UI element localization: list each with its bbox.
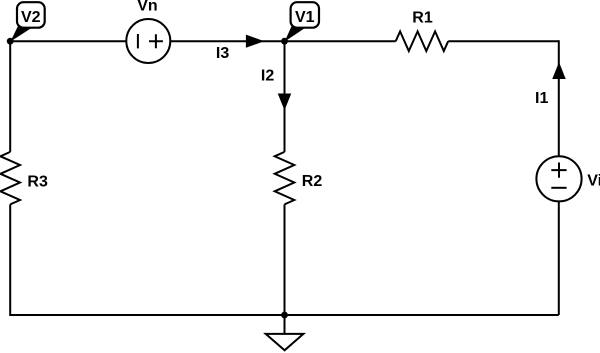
junction dot at bottom node: [281, 312, 288, 319]
wire top: node V1 to R1 left lead: [285, 40, 396, 42]
current arrow I2: [279, 94, 291, 109]
svg-text:Vn: Vn: [137, 0, 157, 15]
wire right: Vi bottom terminal to bottom-right corner: [558, 202, 560, 316]
wire stub: bottom node to ground: [284, 315, 286, 334]
svg-text:R3: R3: [27, 174, 48, 191]
node V1 callout: [285, 2, 319, 41]
wire middle: node V1 down to R2 top lead: [284, 41, 286, 152]
svg-text:I1: I1: [535, 90, 548, 107]
current arrow I1: [553, 64, 565, 79]
wire top: node V2 to Vn left terminal: [10, 40, 126, 42]
svg-text:V2: V2: [21, 9, 41, 26]
svg-text:R2: R2: [302, 173, 323, 190]
voltage source Vi: [536, 156, 581, 201]
current arrow I3: [246, 35, 262, 47]
node V2 callout: [10, 2, 44, 41]
svg-text:V1: V1: [295, 9, 315, 26]
resistor R2: [275, 152, 295, 205]
ground: [266, 334, 304, 350]
svg-text:Vi: Vi: [587, 172, 600, 189]
voltage source Vn: [126, 19, 170, 63]
wire bottom: [10, 314, 559, 316]
wire left: R3 bottom lead to bottom-left corner: [9, 204, 11, 316]
junction dot at node V2: [7, 38, 14, 45]
wire top: Vn right terminal to node V1: [170, 40, 284, 42]
junction dot at node V1: [281, 38, 288, 45]
svg-text:R1: R1: [412, 9, 433, 26]
wire middle: R2 bottom lead to bottom wire: [284, 204, 286, 315]
wire left: node V2 down to R3 top lead: [9, 41, 11, 152]
wire right: corner down to Vi top terminal: [558, 40, 560, 156]
wire top: R1 right lead to top-right corner: [448, 40, 559, 42]
svg-text:I2: I2: [261, 67, 274, 84]
resistor R1: [396, 31, 449, 51]
svg-text:I3: I3: [216, 45, 229, 62]
resistor R3: [0, 152, 20, 205]
